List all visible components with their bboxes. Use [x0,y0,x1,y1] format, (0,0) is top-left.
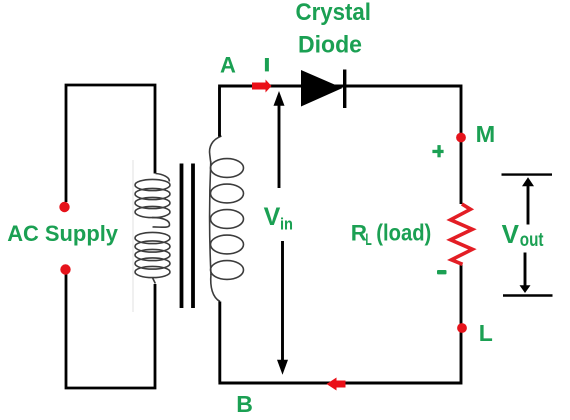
diode D1 cathode bar [343,70,346,109]
svg-text:out: out [520,229,544,251]
faint guide line artifact [132,160,134,312]
wire: secondary top lead + top wire A to M corner + right drop [218,86,461,204]
svg-text:V: V [502,219,520,249]
Vout down arrow [520,253,531,294]
svg-text:L: L [365,230,371,249]
Vin down arrow [277,241,288,375]
svg-text:L: L [479,320,493,346]
svg-text:AC Supply: AC Supply [7,221,118,246]
svg-text:A: A [220,52,236,77]
transformer T1 secondary coil [210,136,244,302]
svg-text:(load): (load) [376,219,431,245]
Vin up arrow [274,91,285,188]
svg-text:in: in [280,216,293,234]
transformer T1 primary coil [135,174,170,284]
node M (red dot) [456,133,466,143]
svg-text:Diode: Diode [298,31,362,58]
label: current I [265,58,269,71]
wire: AC supply loop bottom-left [65,274,155,388]
node: AC terminal top (red dot) [59,202,69,212]
Vout bracket bottom bar [503,294,553,296]
transformer core (two bars) [182,164,194,309]
svg-text:V: V [264,203,281,231]
svg-text:Crystal: Crystal [296,0,372,26]
label: plus sign [432,145,443,157]
resistor RL (red zigzag) [451,204,473,264]
node L (red dot) [457,323,467,333]
wire: secondary bottom lead + bottom wire B + right rise [218,264,461,383]
current arrow I (red, right) [252,80,272,93]
svg-text:M: M [476,121,496,147]
label: minus sign [437,270,447,274]
Vout up arrow [522,177,534,224]
node: AC terminal bottom (red dot) [60,264,70,274]
diode D1 (triangle) [301,70,343,107]
svg-text:B: B [236,391,253,417]
Vout bracket top bar [502,173,553,175]
current arrow bottom (red, left) [327,378,346,391]
wire: AC supply loop top-left [65,85,155,202]
